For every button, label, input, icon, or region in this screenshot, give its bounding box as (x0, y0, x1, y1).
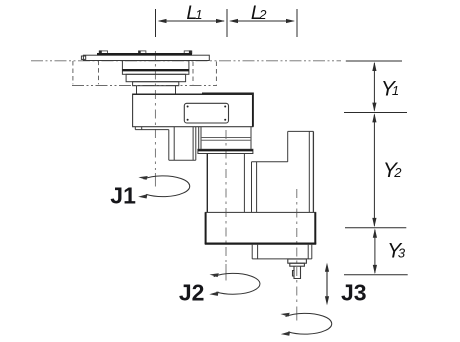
svg-text:J2: J2 (179, 280, 205, 306)
svg-text:J3: J3 (341, 280, 367, 306)
svg-text:2: 2 (393, 165, 402, 180)
svg-text:J1: J1 (110, 183, 136, 209)
svg-text:2: 2 (258, 7, 267, 22)
svg-text:1: 1 (392, 83, 399, 98)
svg-text:1: 1 (195, 7, 202, 22)
svg-text:3: 3 (398, 246, 406, 261)
